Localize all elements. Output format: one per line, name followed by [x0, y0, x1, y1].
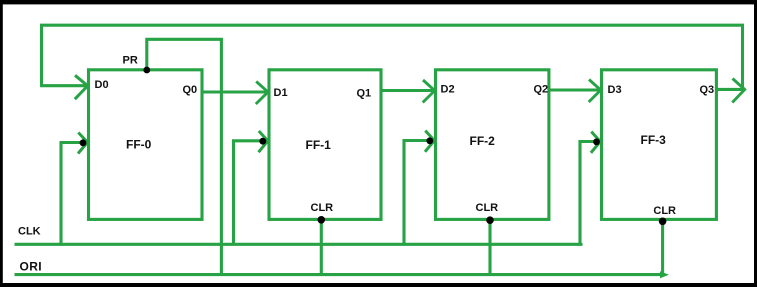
flip-flop FF-0 box — [89, 70, 203, 220]
flip-flop FF-3 box — [602, 70, 717, 220]
wire Q3 output to feedback riser — [716, 79, 744, 103]
flip-flop FF-2 box — [436, 70, 549, 220]
node clock dot FF-0 — [80, 139, 87, 146]
svg-text:Q0: Q0 — [183, 84, 198, 96]
node clock dot FF-3 — [593, 138, 600, 145]
node clock dot FF-2 — [426, 137, 433, 144]
node CLR dot FF-2 — [486, 216, 494, 224]
svg-text:CLK: CLK — [18, 226, 41, 238]
svg-text:D0: D0 — [95, 79, 109, 91]
svg-text:CLR: CLR — [311, 202, 334, 214]
wire PR to ORI line — [147, 39, 222, 274]
wire D0 input — [40, 75, 88, 99]
node PR junction — [143, 67, 150, 74]
wire clock input FF-1 — [234, 131, 268, 246]
wire CLR FF-3 to ORI — [661, 219, 664, 274]
wire CLR FF-2 to ORI — [488, 219, 491, 274]
svg-text:FF-1: FF-1 — [306, 138, 332, 152]
wire CLK bus — [15, 243, 583, 246]
svg-text:D3: D3 — [608, 84, 622, 96]
svg-text:CLR: CLR — [653, 205, 676, 217]
wire clock input FF-2 — [404, 131, 434, 246]
svg-text:FF-2: FF-2 — [470, 134, 496, 148]
svg-text:FF-0: FF-0 — [126, 138, 152, 152]
svg-text:Q1: Q1 — [357, 88, 372, 100]
svg-text:CLR: CLR — [476, 202, 499, 214]
svg-text:FF-3: FF-3 — [641, 133, 667, 147]
wire Q1 to D2 — [381, 80, 435, 103]
node CLR dot FF-1 — [318, 216, 326, 224]
svg-text:PR: PR — [123, 55, 138, 67]
wire feedback Q3 to D0 (top line) — [42, 25, 743, 89]
svg-text:Q3: Q3 — [700, 84, 715, 96]
node CLR dot FF-3 — [659, 218, 667, 226]
wire clock input FF-0 — [61, 133, 88, 246]
flip-flop FF-1 box — [269, 70, 381, 220]
svg-text:ORI: ORI — [20, 259, 43, 273]
wire Q2 to D3 — [549, 80, 601, 103]
svg-text:Q2: Q2 — [534, 84, 549, 96]
wire CLR FF-1 to ORI — [320, 219, 323, 274]
wire Q0 to D1 — [202, 81, 268, 104]
svg-text:D2: D2 — [441, 84, 455, 96]
wire ORI bus — [15, 271, 670, 278]
svg-text:D1: D1 — [274, 87, 288, 99]
node clock dot FF-1 — [259, 138, 266, 145]
wire clock input FF-3 — [580, 132, 600, 246]
